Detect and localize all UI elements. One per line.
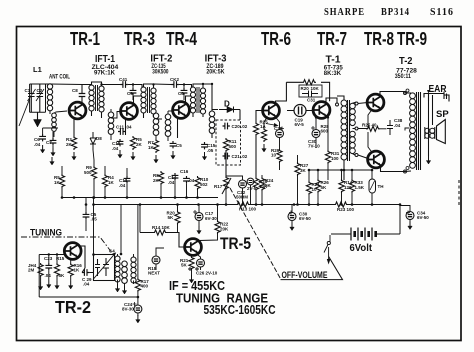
wire R5 xyxy=(61,166,63,198)
svg-text:6V-30: 6V-30 xyxy=(205,216,217,221)
svg-text:10: 10 xyxy=(271,153,277,158)
battery cells xyxy=(351,228,376,241)
wire TR-6 base down xyxy=(256,111,264,178)
L1 secondary coil xyxy=(52,113,57,131)
capacitor C20 xyxy=(223,123,230,130)
ground under R7 xyxy=(154,155,158,163)
wire C24 bottom xyxy=(137,313,139,316)
resistor R5b xyxy=(130,136,135,150)
wire C27 xyxy=(250,185,252,205)
ground under jack xyxy=(426,156,430,164)
diagonal callout line left xyxy=(230,188,281,280)
svg-text:6V-50: 6V-50 xyxy=(299,216,311,221)
wire R18 emitter xyxy=(70,259,72,282)
label C32 7V-10 xyxy=(308,124,329,149)
resistor R33 xyxy=(339,179,344,193)
label C17 6V-30 xyxy=(205,211,217,221)
label C14 .04 xyxy=(168,175,177,185)
transistor TR-8 xyxy=(367,94,384,111)
svg-text:.04: .04 xyxy=(394,123,401,128)
svg-text:TR-9: TR-9 xyxy=(397,29,427,49)
T-1 secondary coil xyxy=(350,103,356,153)
base choke coil TR-4 xyxy=(165,114,171,136)
svg-text:TR-2: TR-2 xyxy=(55,297,91,317)
svg-text:.04: .04 xyxy=(45,273,52,278)
capacitor C29 coupling xyxy=(82,269,89,276)
svg-text:100: 100 xyxy=(331,156,339,161)
svg-text:C11 .04: C11 .04 xyxy=(116,125,132,130)
speaker cone xyxy=(437,120,446,144)
wire R4 xyxy=(104,166,106,198)
svg-text:C5: C5 xyxy=(176,143,182,148)
transistor TR-2 xyxy=(64,243,81,260)
oscillator coil primary xyxy=(115,256,120,282)
svg-text:350:11: 350:11 xyxy=(395,73,412,80)
svg-text:L1: L1 xyxy=(33,65,42,74)
diode D detector xyxy=(219,107,240,113)
transistor TR-6 xyxy=(263,102,280,119)
svg-text:TR-1: TR-1 xyxy=(70,29,100,49)
terminal circles T-2 xyxy=(406,89,409,170)
dashed box detector filter xyxy=(216,120,241,165)
resistor R8 xyxy=(158,171,163,185)
earphone jack xyxy=(424,92,449,102)
dashed jack switch line xyxy=(458,180,460,207)
svg-text:ANT COIL: ANT COIL xyxy=(49,74,70,81)
wire diode to box xyxy=(212,110,240,121)
svg-text:5K: 5K xyxy=(168,215,175,220)
transistor TR-7 xyxy=(313,102,330,119)
wire TR-8 emitter xyxy=(362,110,372,129)
wire C16 xyxy=(186,184,188,198)
antenna coil L1 xyxy=(47,84,52,111)
resistor R32 xyxy=(315,179,320,193)
wire TR-2 collector to C29 xyxy=(79,246,94,273)
label R31 100 xyxy=(331,151,340,161)
label C13 .04 xyxy=(119,178,128,188)
coupling coil after IFT-2 xyxy=(153,113,159,135)
thermistor TH xyxy=(369,179,376,193)
label R17 400 xyxy=(141,279,150,289)
label R8 2K xyxy=(153,173,160,183)
wire R32 xyxy=(317,170,319,205)
terminal circles output xyxy=(404,92,407,174)
resistor R27 xyxy=(295,162,300,176)
svg-text:7V-10: 7V-10 xyxy=(308,144,320,149)
svg-text:S116: S116 xyxy=(430,6,454,18)
svg-text:D8: D8 xyxy=(96,136,102,141)
label R9 500 xyxy=(84,165,92,175)
ground under C34 xyxy=(408,222,412,230)
svg-text:R23 100: R23 100 xyxy=(337,207,355,212)
label R21 5K xyxy=(180,258,189,268)
label C29 .04 xyxy=(82,277,92,287)
svg-text:.04: .04 xyxy=(168,180,175,185)
svg-text:5K: 5K xyxy=(321,185,328,190)
svg-text:T-2: T-2 xyxy=(399,56,413,67)
wire C13 xyxy=(126,168,128,198)
svg-text:1K: 1K xyxy=(54,180,61,185)
label R18 NEXT xyxy=(148,266,160,276)
feedback box C31 xyxy=(299,85,322,97)
label C19 6V-5 xyxy=(295,118,305,128)
wire R14 to TR-5 base xyxy=(140,233,185,248)
label T-1 xyxy=(324,54,344,77)
switch SW xyxy=(324,235,330,261)
wire IFT-2 leads xyxy=(142,84,154,118)
wire TR-3 collector up xyxy=(134,96,143,105)
volume pot R17 xyxy=(223,176,228,190)
capacitor C38 xyxy=(387,120,393,135)
terminal circles T-1 xyxy=(336,102,359,157)
IFT-2 secondary coil xyxy=(151,88,156,114)
capacitor C14 xyxy=(172,173,179,180)
wire R9 top xyxy=(93,150,94,198)
svg-text:.04: .04 xyxy=(119,183,126,188)
wire box to pot xyxy=(225,152,227,176)
label IFT-3 xyxy=(205,54,227,76)
wire TR-1 emitter down xyxy=(73,117,75,136)
ground under C17 xyxy=(197,226,201,234)
ground row under TR-2 parts xyxy=(38,282,42,290)
label R29 10 xyxy=(312,182,321,192)
svg-text:500: 500 xyxy=(84,170,92,175)
wire C9 xyxy=(132,85,134,101)
svg-text:6V-5: 6V-5 xyxy=(295,122,305,127)
IFT-2 core xyxy=(148,87,150,113)
resistor R9 xyxy=(91,166,96,180)
resistor R23 inline xyxy=(334,202,348,207)
svg-text:NEXT: NEXT xyxy=(148,271,160,276)
label 2M xyxy=(28,263,37,273)
capacitor C16 xyxy=(183,176,190,183)
wire IFT-3 leads xyxy=(192,84,204,117)
IFT-3 secondary coil xyxy=(200,88,205,114)
wire TR-4 emitter down xyxy=(177,117,179,139)
IFT-1 primary coil xyxy=(89,85,94,111)
ground under C23 xyxy=(47,280,51,288)
resistor R34 xyxy=(349,179,354,193)
wire R22 xyxy=(197,205,218,242)
svg-text:2K: 2K xyxy=(66,142,73,147)
electrolytic C19 coupling xyxy=(294,105,306,117)
svg-text:TR-8: TR-8 xyxy=(364,29,394,49)
transistor TR-9 xyxy=(368,151,385,168)
resistor R22 xyxy=(215,220,220,234)
speaker voice coil windings xyxy=(425,127,435,139)
svg-text:C21 .02: C21 .02 xyxy=(232,154,248,159)
wire R10 xyxy=(197,190,199,198)
label C15 .05 xyxy=(207,143,216,153)
switch arrow head xyxy=(327,259,331,265)
resistor R14 horizontal xyxy=(153,230,167,235)
wire C28 xyxy=(276,117,280,149)
capacitor C23 xyxy=(45,263,52,270)
electrolytic C25 xyxy=(152,256,160,264)
IFT-1 secondary coil xyxy=(99,86,104,112)
svg-text:502: 502 xyxy=(200,182,208,187)
resistor R10 xyxy=(195,176,200,190)
wire R19 xyxy=(261,175,263,205)
capacitor C8 inline xyxy=(79,94,86,97)
svg-text:.04: .04 xyxy=(34,142,41,147)
wire R30e down xyxy=(279,163,281,170)
capacitor C41 top coupling xyxy=(121,81,128,88)
label R10 502 xyxy=(200,177,209,187)
ground under R18 xyxy=(69,281,73,289)
T-1 primary coil xyxy=(341,100,347,160)
wire C25 xyxy=(156,248,164,270)
label C16 .04 xyxy=(180,169,195,183)
svg-text:R13 100: R13 100 xyxy=(239,207,257,212)
capacitor C7 xyxy=(50,138,57,145)
label R27 3K xyxy=(300,163,309,173)
resistor R4 xyxy=(102,174,107,188)
capacitor C9 beside IFT-2 xyxy=(130,88,137,95)
wire R2M bottom xyxy=(40,277,42,282)
wire R29 xyxy=(308,170,310,205)
label R3 2K xyxy=(66,137,73,147)
wire C30 xyxy=(291,205,293,224)
svg-text:20K:5K: 20K:5K xyxy=(206,69,225,76)
svg-text:2M: 2M xyxy=(28,268,35,273)
capacitor C6 xyxy=(39,134,46,141)
wire TR-9 collector to T-2 xyxy=(381,166,412,172)
T-2 primary coil xyxy=(410,93,416,168)
resistor R19 xyxy=(259,177,264,191)
ground under osc coupling xyxy=(122,286,126,294)
wire TH xyxy=(371,170,373,205)
wire TR-6 collector up xyxy=(276,82,330,104)
electrolytic C24 xyxy=(134,305,142,313)
ground under C17b xyxy=(202,152,206,160)
svg-text:TUNING: TUNING xyxy=(30,228,62,238)
svg-text:1K: 1K xyxy=(74,268,81,273)
tuning gang frame wires xyxy=(30,84,49,112)
ground under C30 xyxy=(290,223,294,231)
wire top rail L1 to IFT-1 xyxy=(50,83,92,86)
svg-text:C9: C9 xyxy=(127,91,133,96)
capacitor C21 xyxy=(223,153,230,160)
IFT-2 primary coil xyxy=(141,87,146,113)
resistor R29 xyxy=(306,181,311,195)
svg-text:TR-5: TR-5 xyxy=(220,234,251,253)
ground under C7 xyxy=(51,148,55,156)
svg-text:R17: R17 xyxy=(214,184,223,189)
label R29 10 xyxy=(271,148,280,158)
svg-text:R25 40: R25 40 xyxy=(362,123,377,128)
svg-text:TR-4: TR-4 xyxy=(166,29,197,49)
wire TR-6 emitter down xyxy=(264,118,267,129)
svg-text:.04: .04 xyxy=(188,178,195,183)
wire R23b bottom xyxy=(255,191,257,205)
capacitor C31 in box xyxy=(302,91,318,97)
variable capacitor C2 xyxy=(36,84,44,112)
resistor R21 xyxy=(189,256,194,270)
plus marks electrolytics xyxy=(133,126,411,306)
wire C6 top xyxy=(43,128,58,134)
tuning gang dash-dot link xyxy=(21,237,113,254)
svg-text:R14 10K: R14 10K xyxy=(152,225,171,230)
label C34 6V-50 xyxy=(417,211,429,221)
wire TR-2 base rail xyxy=(39,255,138,298)
transistor TR-5 xyxy=(185,239,202,256)
wire C22 xyxy=(226,176,243,205)
svg-text:535KC-1605KC: 535KC-1605KC xyxy=(204,303,276,317)
label R20 5K xyxy=(167,211,176,221)
label R12 1A xyxy=(260,120,269,130)
plug tip mark xyxy=(427,90,430,94)
wire battery leads xyxy=(331,205,400,235)
svg-text:5K: 5K xyxy=(181,263,188,268)
svg-text:CK2: CK2 xyxy=(170,77,179,82)
svg-text:C7: C7 xyxy=(46,140,52,145)
electrolytic C26 xyxy=(197,259,205,267)
label C5 .05 xyxy=(91,212,98,222)
transistor TR-4 xyxy=(173,102,190,119)
agc arrow into base xyxy=(266,124,278,127)
ground under C15 xyxy=(171,151,175,159)
arrow head gang xyxy=(112,252,116,256)
wire TR-8 collector to T-2 xyxy=(380,92,411,97)
wire C12 xyxy=(183,85,185,101)
svg-text:TR-6: TR-6 xyxy=(261,29,291,49)
label C24 8V-30 xyxy=(122,302,134,312)
wire C17 xyxy=(198,205,200,229)
label 2K xyxy=(136,137,143,147)
label R5 1K xyxy=(54,175,61,185)
wire R8 xyxy=(160,185,162,198)
ground under R3 xyxy=(72,152,76,160)
wire TR-1 collector up xyxy=(81,85,83,104)
resistor R20 base bias xyxy=(175,211,180,225)
electrolytic C32 xyxy=(312,130,320,138)
IFT-1 core xyxy=(96,85,98,111)
oscillator tuning box xyxy=(94,255,115,281)
label IFT-1 xyxy=(92,54,119,77)
diode D8 xyxy=(90,132,96,150)
label R23 10K xyxy=(259,179,268,189)
wire TR-5 emitter to C26 xyxy=(197,255,201,271)
bus wire upper xyxy=(62,197,218,199)
label R22 20K xyxy=(220,222,229,232)
wire T-1 center tap xyxy=(353,128,363,130)
wire top rail IFT1 to C41 xyxy=(102,82,143,87)
resistor R20 inline top xyxy=(302,80,316,85)
capacitor C10 xyxy=(117,139,124,146)
T-2 core xyxy=(417,92,421,170)
svg-text:C31: C31 xyxy=(307,98,316,103)
wire R34 xyxy=(351,170,353,205)
electrolytic C34 xyxy=(406,212,414,220)
svg-text:30K500: 30K500 xyxy=(152,69,169,76)
wire coupling to TR-3 base xyxy=(111,109,121,140)
svg-text:TR-7: TR-7 xyxy=(317,29,347,49)
ground under tuning gang xyxy=(34,112,42,127)
ground under C10 xyxy=(118,150,122,158)
gang arrow through box xyxy=(93,254,115,280)
resistor R2M xyxy=(38,263,43,277)
resistor R11 xyxy=(223,138,228,152)
svg-text:6V-50: 6V-50 xyxy=(417,215,429,220)
capacitor C12 beside IFT-3 xyxy=(181,88,188,95)
svg-text:BP314: BP314 xyxy=(381,6,410,18)
label R18 1K xyxy=(74,263,83,273)
wire riser to bus left of R14 xyxy=(139,205,141,233)
capacitor C5 xyxy=(83,212,90,219)
svg-text:TH: TH xyxy=(378,184,384,189)
wire R20 riser xyxy=(178,205,180,233)
svg-text:10K: 10K xyxy=(311,86,320,91)
label R20 10K xyxy=(301,86,320,91)
wire L1 sec to TR-1 base xyxy=(54,111,67,137)
plus marks C26 xyxy=(188,267,199,271)
resistor R30e xyxy=(277,149,282,163)
label T-2 xyxy=(395,56,418,80)
wire T-1 primary bottom xyxy=(343,160,345,180)
resistor R7 xyxy=(153,139,158,153)
wire R25 to C38 xyxy=(380,128,387,130)
label C6 .04 xyxy=(34,137,41,147)
antenna lead wire xyxy=(19,99,30,126)
transistor TR-3 xyxy=(121,103,138,120)
svg-text:SHARPE: SHARPE xyxy=(324,6,365,18)
svg-text:C4: C4 xyxy=(109,249,115,254)
ground under R26e xyxy=(262,144,266,152)
svg-text:.05: .05 xyxy=(207,148,214,153)
IFT-3 primary coil xyxy=(190,87,195,113)
svg-text:C8: C8 xyxy=(72,88,78,93)
transistor TR-1 xyxy=(69,102,86,119)
resistor R16 xyxy=(54,263,59,277)
label R4 1K xyxy=(108,175,115,185)
svg-text:C26 2V-10: C26 2V-10 xyxy=(196,271,218,276)
svg-text:5K: 5K xyxy=(265,183,272,188)
label IFT-2 xyxy=(150,54,172,76)
label R32 xyxy=(321,180,330,190)
detector coupling coil xyxy=(209,111,215,133)
capacitor C13 xyxy=(124,176,131,183)
variable cap C4 in box xyxy=(103,258,109,276)
svg-text:400: 400 xyxy=(141,284,149,289)
callout underline OFF-VOLUME xyxy=(281,257,343,280)
wire C7 top xyxy=(52,132,54,148)
svg-text:C41: C41 xyxy=(119,77,128,82)
wire L1 ends xyxy=(49,84,51,114)
svg-text:500: 500 xyxy=(229,144,237,149)
ground under osc coil xyxy=(115,284,119,292)
wire T-1 sec bottom to TR-9 base xyxy=(353,154,369,159)
svg-text:600: 600 xyxy=(321,129,329,134)
wire output bias rail xyxy=(309,160,372,170)
wire osc risers to bus xyxy=(62,188,121,255)
wire C34 xyxy=(400,206,410,223)
label R33 1.5K xyxy=(355,180,365,190)
ground under C6 xyxy=(40,145,44,153)
wire jack down xyxy=(429,95,433,156)
svg-text:.04: .04 xyxy=(83,282,90,287)
wire R33 xyxy=(341,170,343,205)
svg-text:97K:1K: 97K:1K xyxy=(94,70,116,77)
wire T-1 sec top to TR-8 base xyxy=(353,102,368,104)
svg-text:OFF-VOLUME: OFF-VOLUME xyxy=(282,270,328,280)
wire TR-3 emitter down xyxy=(125,118,127,136)
coupling coil after IFT-1 xyxy=(108,112,114,134)
capacitor C17b xyxy=(201,142,208,149)
resistor R3 xyxy=(71,136,76,150)
wire TR-4 collector up xyxy=(186,96,192,104)
wire C23 xyxy=(48,255,50,281)
